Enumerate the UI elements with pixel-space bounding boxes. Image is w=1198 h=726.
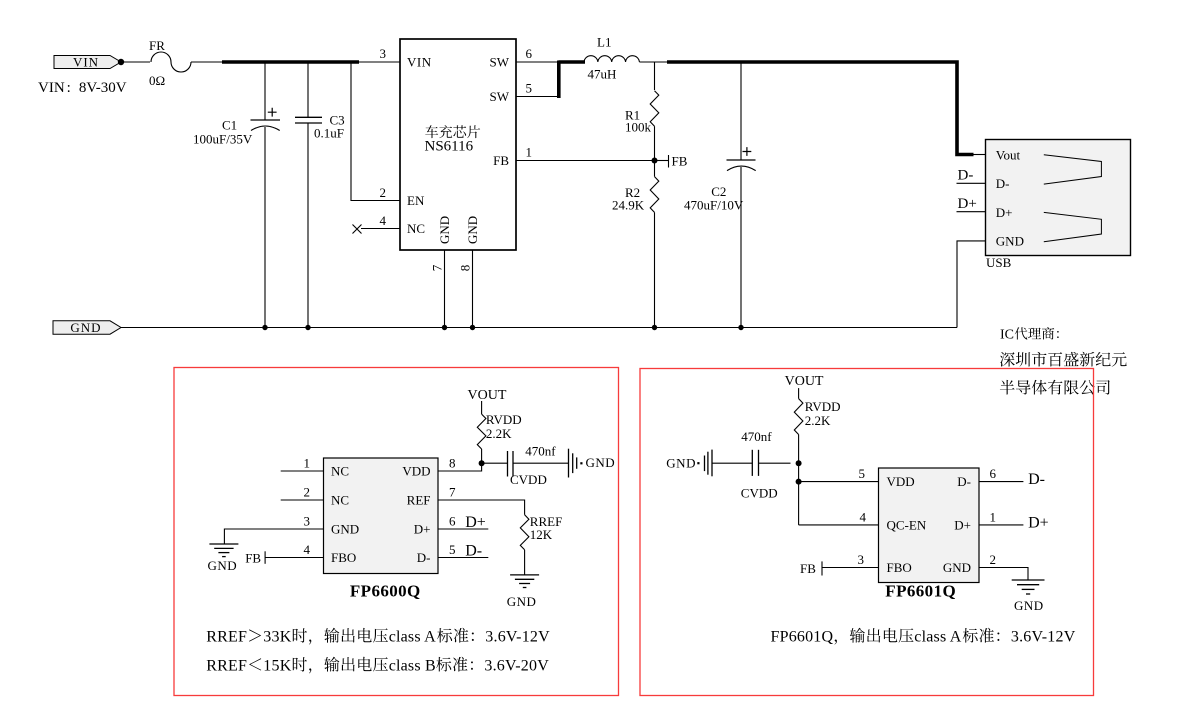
svg-text:3.6V-20V: 3.6V-20V [484, 657, 549, 674]
ground symbol pin 2 (FP6601Q) [1012, 580, 1045, 594]
svg-text:RVDD: RVDD [486, 412, 522, 427]
svg-text:L1: L1 [597, 35, 611, 50]
wire R2 to ground rail [654, 212, 656, 327]
svg-text:3: 3 [304, 513, 311, 528]
ground symbol RREF [510, 575, 539, 588]
wire pin 6 SW [516, 61, 560, 63]
label pin name GND (pin 8, rotated) [465, 216, 480, 244]
svg-text:2: 2 [304, 484, 311, 499]
wire pin 5 D- (FP6600Q) [438, 557, 488, 559]
svg-text:4: 4 [860, 509, 867, 524]
label VIN range [38, 80, 127, 96]
svg-text:3.6V-12V: 3.6V-12V [485, 628, 550, 645]
wire NC pin 4 [361, 228, 400, 230]
port VIN [54, 55, 121, 70]
wire node to capacitor CVDD [482, 462, 508, 464]
svg-text:VIN: VIN [407, 54, 432, 69]
resistor R1 [654, 62, 656, 90]
thick wire pin5 to pin6 node [557, 61, 561, 99]
IC U2 FP6600Q body [324, 458, 439, 574]
svg-text:RVDD: RVDD [805, 399, 841, 414]
pin number 8 (rotated) [458, 265, 473, 272]
svg-text:FR: FR [149, 38, 165, 53]
wire pin 2 GND (FP6601Q) [979, 568, 1028, 581]
svg-text:47uH: 47uH [588, 67, 617, 82]
svg-text:VIN:8V-30V: VIN:8V-30V [38, 80, 127, 96]
svg-text:EN: EN [407, 193, 425, 208]
svg-text:GND: GND [1014, 598, 1044, 613]
svg-text:SW: SW [490, 54, 510, 69]
junction dot C3 ground [305, 325, 310, 330]
wire pin 6 D+ (FP6600Q) [438, 528, 488, 530]
note distributor company line 2 [1000, 352, 1127, 367]
IC U1 title chinese (car charger chip) [425, 125, 480, 138]
wire L1 to output bus [639, 61, 668, 63]
svg-text:NS6116: NS6116 [425, 139, 474, 155]
svg-text:D+: D+ [996, 205, 1013, 220]
FP6600Q application red frame [174, 368, 619, 696]
junction dot at VIN port [118, 59, 124, 65]
svg-text:RREF: RREF [206, 628, 247, 645]
wire node down to QC-EN (FP6601Q) [798, 463, 800, 525]
svg-text:5: 5 [526, 81, 533, 96]
svg-text:3: 3 [380, 46, 387, 61]
wire pin 7 REF to RREF [438, 500, 525, 515]
svg-text:2.2K: 2.2K [486, 426, 512, 441]
svg-text:D-: D- [957, 474, 971, 489]
svg-text:D-: D- [1028, 471, 1045, 488]
thick wire SW node [559, 60, 586, 64]
capacitor C2 (polarized) [727, 62, 756, 328]
ground (bars) CVDD FP6601Q [697, 450, 712, 477]
svg-text:0Ω: 0Ω [149, 73, 165, 88]
wire pin 3 FBO (FP6601Q) [822, 567, 879, 569]
wire output bus to Vout pin [972, 154, 986, 156]
svg-text:GND: GND [666, 456, 696, 471]
svg-text:GND: GND [331, 521, 359, 536]
svg-text:8: 8 [458, 265, 473, 272]
svg-text:VIN: VIN [73, 55, 99, 70]
wire RREF to ground [524, 550, 526, 575]
svg-text:Vout: Vout [996, 147, 1021, 162]
svg-text:GND: GND [437, 216, 452, 244]
svg-text:6: 6 [449, 513, 456, 528]
junction dot C2 ground [738, 325, 743, 330]
svg-text:FB: FB [800, 561, 816, 576]
junction dot R2 ground [652, 325, 657, 330]
svg-text:8: 8 [449, 455, 456, 470]
svg-text:GND: GND [208, 558, 238, 573]
svg-text:1: 1 [990, 509, 997, 524]
wire stub D- [957, 182, 986, 184]
wire pin 1 D+ (FP6601Q) [979, 524, 1023, 526]
svg-text:NC: NC [331, 463, 349, 478]
resistor RVDD (FP6601Q) [794, 399, 803, 435]
capacitor C1 (polarized) [251, 62, 281, 328]
wire USB GND to ground rail [957, 241, 986, 328]
net label tick FB (FP6601Q) [821, 561, 823, 575]
svg-text:D-: D- [958, 167, 974, 183]
wire pin 8 VDD to node [438, 463, 482, 471]
svg-text:VOUT: VOUT [785, 374, 824, 389]
svg-text:class A: class A [389, 628, 436, 645]
svg-text:FP6601Q: FP6601Q [885, 582, 956, 601]
net label tick FB (FP6600Q) [264, 551, 266, 564]
wire pin 4 FBO (FP6600Q) [265, 557, 323, 559]
svg-text:D-: D- [465, 543, 482, 560]
svg-text:GND: GND [996, 234, 1024, 249]
svg-text:2.2K: 2.2K [805, 413, 831, 428]
svg-text:FP6600Q: FP6600Q [350, 582, 421, 601]
svg-text:VDD: VDD [402, 463, 430, 478]
svg-text:5: 5 [449, 542, 456, 557]
capacitor C3 [295, 62, 322, 328]
capacitor CVDD (FP6601Q) [752, 450, 758, 476]
svg-text:GND: GND [586, 455, 616, 470]
svg-text:100k: 100k [625, 120, 652, 135]
svg-text:4: 4 [380, 213, 387, 228]
resistor R2 [654, 161, 656, 177]
ground symbol pin 3 (FP6600Q) [209, 544, 238, 557]
junction dot node 1 (FP6601Q) [796, 460, 802, 466]
wire ground to CVDD (FP6601Q) [712, 462, 752, 464]
svg-text:33K: 33K [263, 628, 291, 645]
svg-text:GND: GND [70, 320, 101, 335]
svg-text:GND: GND [465, 216, 480, 244]
svg-text:SW: SW [490, 89, 510, 104]
wire pin 2 (FP6600Q) [281, 499, 324, 501]
pin number 7 (rotated) [430, 264, 445, 271]
svg-text:15K: 15K [263, 657, 291, 674]
svg-text:FBO: FBO [887, 560, 912, 575]
wire RVDD to node (FP6601Q) [798, 435, 800, 464]
wire node to pin 5 VDD (FP6601Q) [799, 481, 879, 483]
net label tick FB [668, 155, 670, 168]
FP6601Q application red frame [640, 369, 1094, 696]
wire pin 5 SW [516, 96, 560, 98]
svg-text:7: 7 [449, 484, 456, 499]
wire stub D+ [957, 211, 986, 213]
no-connect X on pin 4 NC [353, 225, 362, 234]
USB contact fork bottom [1044, 212, 1102, 241]
note distributor company line 3 [1000, 380, 1110, 395]
svg-text:470uF/10V: 470uF/10V [684, 197, 744, 212]
svg-text:class B: class B [389, 657, 436, 674]
junction dot pin7 ground [442, 325, 447, 330]
ground rail wire [121, 327, 957, 329]
svg-text:class A: class A [914, 628, 961, 645]
wire pin 1 FB to node [516, 160, 655, 162]
wire pin 3 GND (FP6600Q) [224, 529, 323, 544]
svg-text:GND: GND [943, 560, 971, 575]
wire VOUT to RVDD [481, 401, 483, 414]
svg-text:1: 1 [304, 455, 311, 470]
svg-text:12K: 12K [530, 527, 553, 542]
wire FB node to tick [655, 160, 669, 162]
svg-text:D+: D+ [414, 521, 431, 536]
svg-text:FB: FB [245, 551, 261, 566]
wire pin 8 GND [472, 250, 474, 328]
svg-text:6: 6 [990, 466, 997, 481]
wire to pin 4 QC-EN (FP6601Q) [799, 524, 879, 526]
svg-text:FB: FB [672, 154, 688, 169]
wire CVDD to ground bars [513, 462, 568, 464]
wire to pin 3 VIN [357, 61, 400, 63]
svg-text:D+: D+ [465, 514, 486, 531]
svg-text:24.9K: 24.9K [612, 197, 645, 212]
svg-text:REF: REF [407, 492, 431, 507]
svg-text:470nf: 470nf [525, 444, 556, 459]
junction dot node FB [652, 158, 658, 164]
svg-text:0.1uF: 0.1uF [314, 126, 344, 141]
svg-text:7: 7 [430, 264, 445, 271]
svg-text:2: 2 [990, 552, 997, 567]
USB contact fork top [1044, 155, 1102, 184]
svg-text:D+: D+ [958, 196, 977, 212]
svg-text:NC: NC [331, 492, 349, 507]
junction dot C1 ground [262, 325, 267, 330]
svg-text:2: 2 [380, 185, 387, 200]
svg-text:D-: D- [417, 550, 431, 565]
svg-text:USB: USB [986, 255, 1012, 270]
IC U1 NS6116 body [400, 39, 516, 250]
svg-text:D+: D+ [954, 517, 971, 532]
svg-text:FP6601Q: FP6601Q [771, 628, 834, 645]
resistor RVDD (FP6600Q) [477, 414, 486, 449]
svg-text:GND: GND [507, 594, 537, 609]
svg-text:FBO: FBO [331, 550, 356, 565]
svg-text:1: 1 [526, 145, 533, 160]
ground (bars) CVDD FP6600Q [569, 449, 583, 478]
svg-text:NC: NC [407, 221, 425, 236]
svg-text:VOUT: VOUT [468, 388, 507, 403]
wire pin 7 GND [444, 250, 446, 328]
svg-text:D+: D+ [1028, 514, 1049, 531]
port GND [53, 320, 121, 335]
wire pin 1 (FP6600Q) [281, 470, 324, 472]
fuse FR [151, 52, 191, 72]
junction dot node 2 (FP6601Q) [796, 479, 802, 485]
wire CVDD to node (FP6601Q) [759, 462, 791, 464]
svg-text:D-: D- [996, 176, 1010, 191]
thick input bus wire [222, 60, 359, 64]
capacitor CVDD (FP6600Q) [508, 451, 514, 477]
svg-text:VDD: VDD [887, 474, 915, 489]
svg-text:C1: C1 [222, 118, 237, 133]
resistor RREF [520, 515, 529, 550]
junction dot VDD node (FP6600Q) [479, 460, 485, 466]
svg-text:CVDD: CVDD [510, 472, 547, 487]
svg-text:4: 4 [304, 542, 311, 557]
wire pin 6 D- (FP6601Q) [979, 481, 1023, 483]
inductor L1 [584, 56, 639, 62]
svg-text:100uF/35V: 100uF/35V [193, 132, 253, 147]
wire VOUT to RVDD (FP6601Q) [798, 388, 800, 399]
svg-text:470nf: 470nf [741, 429, 772, 444]
wire EN to input node [351, 62, 400, 201]
svg-text:FB: FB [493, 153, 509, 168]
svg-text:5: 5 [859, 466, 866, 481]
wire RVDD to VDD node [481, 449, 483, 463]
thick output bus wire to USB [667, 62, 974, 155]
wire R1 to FB node [654, 126, 656, 160]
label pin name GND (pin 7, rotated) [437, 216, 452, 244]
wire fuse to input node [191, 61, 224, 63]
junction dot pin8 ground [470, 325, 475, 330]
svg-text:CVDD: CVDD [741, 486, 778, 501]
wire VIN port to fuse FR [121, 61, 150, 63]
svg-text:6: 6 [526, 46, 533, 61]
svg-text:QC-EN: QC-EN [887, 517, 927, 532]
USB connector body [986, 140, 1131, 256]
svg-text:3: 3 [858, 552, 865, 567]
svg-text:IC: IC [1000, 328, 1014, 343]
svg-text:RREF: RREF [206, 657, 247, 674]
svg-text:3.6V-12V: 3.6V-12V [1011, 628, 1076, 645]
IC U3 FP6601Q body [879, 468, 980, 583]
